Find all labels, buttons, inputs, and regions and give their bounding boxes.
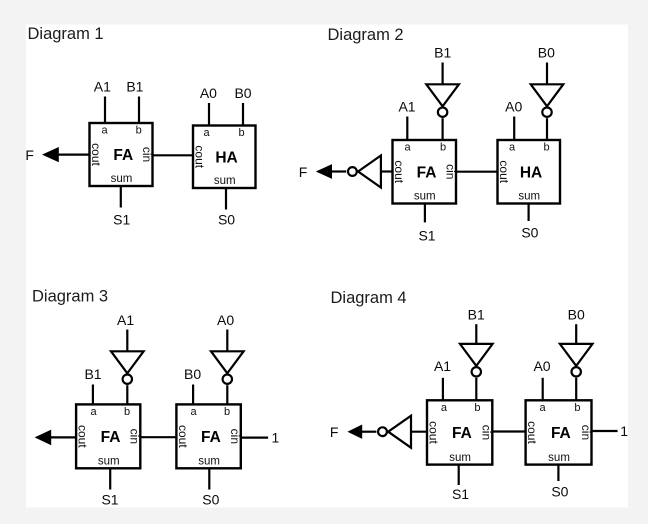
svg-text:Diagram 1: Diagram 1 — [28, 25, 104, 43]
svg-text:a: a — [191, 406, 198, 418]
inverter on A0 (Diagram 3) — [211, 351, 244, 384]
svg-text:cin: cin — [480, 425, 494, 440]
svg-text:B0: B0 — [538, 45, 555, 61]
svg-text:sum: sum — [198, 456, 220, 468]
wire HA sum to S0 (Diagram 2) — [527, 204, 529, 222]
svg-text:a: a — [404, 142, 411, 154]
svg-text:Diagram 3: Diagram 3 — [32, 288, 108, 306]
svg-text:cout: cout — [89, 143, 103, 166]
half adder U4 (Diagram 2 HA) — [497, 140, 560, 204]
inverter on A1 (Diagram 3) — [111, 351, 144, 384]
svg-text:B0: B0 — [568, 306, 585, 322]
full adder U1 (Diagram 1 FA) — [89, 123, 154, 186]
wire left FA cout to output arrow (Diagram 3) — [51, 436, 76, 438]
svg-text:cout: cout — [176, 425, 190, 448]
full adder U8 (Diagram 4 right FA) — [525, 400, 593, 464]
svg-text:S0: S0 — [202, 492, 219, 508]
svg-text:b: b — [224, 406, 230, 418]
wire A1 to left FA pin a (Diagram 4) — [442, 378, 444, 401]
inverter on B1 (Diagram 2) — [426, 84, 459, 117]
svg-text:a: a — [91, 406, 98, 418]
svg-text:1: 1 — [620, 423, 628, 439]
wire cin to constant 1 (Diagram 4) — [592, 430, 618, 432]
svg-text:FA: FA — [551, 425, 571, 442]
wire FA sum to S1 (Diagram 2) — [424, 204, 426, 223]
svg-text:b: b — [440, 142, 446, 154]
svg-text:cout: cout — [392, 160, 406, 183]
svg-text:cout: cout — [76, 425, 90, 448]
wire cin to constant 1 (Diagram 3) — [241, 437, 268, 439]
svg-text:HA: HA — [520, 164, 542, 181]
arrowhead F output (Diagram 4) — [347, 425, 362, 439]
svg-text:F: F — [330, 424, 339, 440]
svg-text:cin: cin — [140, 147, 154, 162]
svg-text:cin: cin — [443, 164, 457, 179]
wire B1 to inverter (Diagram 2) — [442, 63, 444, 85]
wire A0 to inverter (Diagram 3) — [226, 330, 228, 352]
wire A0 to HA pin a (Diagram 2) — [513, 117, 515, 141]
svg-text:cin: cin — [579, 425, 593, 440]
svg-text:B0: B0 — [184, 366, 201, 382]
svg-text:cout: cout — [525, 421, 539, 444]
svg-text:b: b — [238, 127, 244, 139]
svg-text:B1: B1 — [434, 45, 451, 61]
svg-text:A1: A1 — [434, 358, 451, 374]
full adder U7 (Diagram 4 left FA) — [427, 400, 494, 464]
svg-text:A0: A0 — [200, 85, 217, 101]
svg-text:S1: S1 — [101, 492, 118, 508]
svg-text:A0: A0 — [217, 312, 234, 328]
full adder U5 (Diagram 3 left FA) — [76, 404, 142, 468]
wire inverter to right FA pin b (Diagram 3) — [226, 385, 228, 404]
svg-text:a: a — [101, 125, 108, 137]
arrowhead F output (Diagram 2) — [316, 164, 332, 179]
full adder U3 (Diagram 2 FA) — [392, 140, 457, 204]
wire left FA sum to S1 (Diagram 4) — [458, 465, 460, 485]
svg-text:Diagram 4: Diagram 4 — [331, 289, 407, 307]
svg-text:A1: A1 — [398, 99, 415, 115]
inverter on B0 (Diagram 4) — [560, 344, 593, 377]
svg-text:a: a — [509, 142, 516, 154]
arrowhead F output (Diagram 1) — [42, 147, 59, 162]
output inverter (Diagram 2) — [348, 156, 381, 188]
svg-text:sum: sum — [449, 452, 471, 464]
svg-text:cin: cin — [128, 429, 142, 444]
half adder U2 (Diagram 1 HA) — [193, 126, 256, 189]
svg-text:FA: FA — [101, 429, 121, 446]
arrowhead output (Diagram 3) — [35, 430, 52, 446]
svg-text:FA: FA — [113, 147, 133, 164]
wire A0 to right FA pin a (Diagram 4) — [542, 378, 544, 401]
svg-text:S1: S1 — [113, 212, 130, 228]
wire HA cout to FA cin (Diagram 1) — [153, 154, 194, 156]
wire B0 to inverter (Diagram 2) — [546, 63, 548, 85]
wire left FA cout to output inverter (Diagram 4) — [411, 431, 427, 433]
output inverter (Diagram 4) — [378, 416, 411, 448]
svg-text:b: b — [574, 402, 580, 414]
wire B1 to FA pin b (Diagram 1) — [138, 97, 140, 124]
svg-text:S0: S0 — [551, 484, 568, 500]
svg-text:A1: A1 — [94, 79, 111, 95]
wire A1 to FA pin a (Diagram 1) — [104, 97, 106, 124]
wire B0 to inverter (Diagram 4) — [575, 324, 577, 344]
wire right FA sum to S0 (Diagram 4) — [557, 465, 559, 481]
svg-text:b: b — [124, 406, 130, 418]
svg-text:F: F — [25, 147, 34, 163]
wire inverter to F arrow (Diagram 4) — [362, 431, 377, 433]
wire FA cout to output inverter (Diagram 2) — [381, 170, 393, 172]
wire B1 to inverter (Diagram 4) — [475, 324, 477, 344]
svg-text:cout: cout — [497, 160, 511, 183]
wire HA cout to FA cin (Diagram 2) — [456, 171, 498, 173]
wire B0 to HA pin b (Diagram 1) — [242, 103, 244, 126]
svg-text:S1: S1 — [418, 227, 435, 243]
svg-text:S0: S0 — [218, 212, 235, 228]
svg-text:cout: cout — [193, 145, 207, 168]
svg-text:HA: HA — [215, 149, 237, 166]
svg-text:A1: A1 — [117, 312, 134, 328]
wire right FA sum to S0 (Diagram 3) — [208, 468, 210, 489]
svg-text:cin: cin — [228, 429, 242, 444]
svg-text:B0: B0 — [234, 85, 251, 101]
svg-text:Diagram 2: Diagram 2 — [328, 26, 404, 44]
wire HA sum to S0 (Diagram 1) — [225, 188, 227, 210]
svg-text:b: b — [543, 142, 549, 154]
wire FA cout to F (Diagram 1) — [58, 154, 90, 156]
wire right FA cout to left FA cin (Diagram 3) — [140, 436, 176, 438]
inverter on B0 (Diagram 2) — [531, 84, 564, 117]
svg-text:sum: sum — [111, 173, 133, 185]
svg-text:b: b — [474, 402, 480, 414]
svg-text:FA: FA — [417, 164, 437, 181]
svg-text:B1: B1 — [84, 366, 101, 382]
full adder U6 (Diagram 3 right FA) — [176, 404, 242, 468]
svg-text:S0: S0 — [521, 224, 538, 240]
svg-text:S1: S1 — [452, 486, 469, 502]
svg-text:sum: sum — [548, 452, 570, 464]
wire inverter to F arrow (Diagram 2) — [332, 170, 347, 172]
wire B0 to right FA pin a (Diagram 3) — [192, 385, 194, 405]
wire inverter to left FA pin b (Diagram 3) — [126, 385, 128, 404]
svg-text:A0: A0 — [533, 358, 550, 374]
svg-text:FA: FA — [201, 429, 221, 446]
svg-text:A0: A0 — [505, 99, 522, 115]
svg-text:a: a — [539, 402, 546, 414]
wire right FA cout to left FA cin (Diagram 4) — [492, 430, 525, 432]
svg-text:B1: B1 — [126, 79, 143, 95]
wire inverter to HA pin b (Diagram 2) — [546, 118, 548, 140]
svg-text:sum: sum — [214, 175, 236, 187]
wire inverter to left FA pin b (Diagram 4) — [475, 378, 477, 401]
wire B1 to left FA pin a (Diagram 3) — [92, 385, 94, 405]
inverter on B1 (Diagram 4) — [460, 344, 493, 377]
svg-text:cout: cout — [427, 421, 441, 444]
svg-text:B1: B1 — [468, 306, 485, 322]
svg-text:F: F — [299, 164, 308, 180]
svg-text:sum: sum — [518, 191, 540, 203]
wire left FA sum to S1 (Diagram 3) — [109, 468, 111, 489]
svg-text:sum: sum — [414, 191, 436, 203]
svg-text:b: b — [136, 125, 142, 137]
wire A1 to FA pin a (Diagram 2) — [406, 117, 408, 141]
svg-text:1: 1 — [272, 429, 280, 445]
svg-text:sum: sum — [98, 456, 120, 468]
svg-text:FA: FA — [452, 425, 472, 442]
wire inverter to right FA pin b (Diagram 4) — [575, 378, 577, 401]
svg-text:a: a — [441, 402, 448, 414]
svg-text:a: a — [203, 127, 210, 139]
wire A1 to inverter (Diagram 3) — [126, 330, 128, 352]
wire A0 to HA pin a (Diagram 1) — [208, 103, 210, 126]
wire FA sum to S1 (Diagram 1) — [120, 186, 122, 208]
wire inverter to FA pin b (Diagram 2) — [442, 118, 444, 140]
